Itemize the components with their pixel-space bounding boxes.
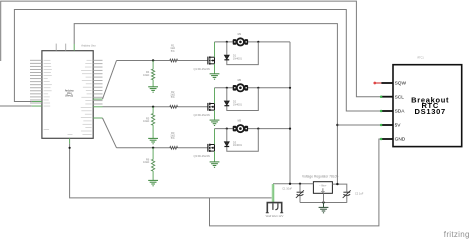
junction node gate channel 3 [152, 147, 154, 149]
wire flyback loop channel 3 [227, 129, 258, 152]
svg-text:5%: 5% [171, 49, 175, 53]
wire gate drive channel 2 [103, 106, 170, 108]
wire 5V branch to RTC 5V pin [337, 124, 381, 126]
wire from left edge to arduino left pin [0, 105, 32, 107]
diode D1 1N4001 [224, 55, 229, 59]
wire 12V motor rail vertical [289, 42, 291, 184]
arduino right pin labels [81, 60, 92, 134]
label R4 10k [143, 70, 150, 77]
label R5 10k [143, 116, 150, 123]
junction motor rail ch2 [289, 87, 291, 89]
green connection dot GND [380, 138, 383, 141]
wire regulator gnd lead [323, 193, 325, 202]
svg-text:SQW: SQW [395, 81, 407, 87]
green connection dot SCL [380, 95, 383, 98]
junction diode right channel 1 [257, 41, 259, 43]
resistor R5 10k pulldown [152, 107, 154, 114]
wire drain channel 2 [214, 88, 216, 104]
svg-text:GND: GND [395, 137, 406, 143]
wire source to ground channel 3 [214, 151, 216, 162]
junction regulator ground [322, 201, 324, 203]
RTC pin stub SQW [381, 82, 393, 84]
wire drain channel 3 [214, 129, 216, 145]
wire source to ground channel 2 [214, 110, 216, 120]
svg-text:5%: 5% [171, 136, 175, 140]
wire source to ground channel 1 [214, 64, 216, 74]
wire flyback loop channel 2 [227, 88, 258, 111]
transistor Q1 N-MOSFET [208, 56, 215, 64]
capacitor C1 10uF [299, 184, 301, 192]
svg-text:10kΩ: 10kΩ [143, 73, 149, 77]
ground source Q3 [210, 162, 220, 167]
svg-text:1N4001: 1N4001 [233, 143, 243, 147]
arduino pin stub channel 3 [93, 117, 102, 119]
svg-text:10kΩ: 10kΩ [143, 119, 149, 123]
junction node gate channel 2 [152, 106, 154, 108]
svg-text:DS1307: DS1307 [415, 107, 446, 116]
svg-text:RTC1: RTC1 [418, 56, 425, 59]
svg-text:− Vin +: − Vin + [319, 186, 327, 188]
arduino extra pin labels [44, 130, 73, 135]
svg-text:Voltage Regulator 78L05: Voltage Regulator 78L05 [302, 175, 338, 179]
junction diode right channel 3 [257, 128, 259, 130]
junction diode left channel 3 [226, 128, 228, 130]
arduino U1 body [42, 51, 93, 139]
RTC breakout box U2 [393, 65, 462, 147]
label R3 1k 5% [170, 131, 175, 140]
junction 5V to RTC [336, 124, 338, 126]
svg-text:Arduino Uno: Arduino Uno [81, 43, 96, 47]
junction diode right channel 2 [257, 87, 259, 89]
junction on GND drop wire [69, 147, 71, 149]
resistor R2 1k series [170, 105, 178, 108]
wire ground rail under regulator [300, 202, 347, 204]
junction 12V riser [289, 183, 291, 185]
svg-text:Q2 IRL2N24N: Q2 IRL2N24N [194, 113, 210, 117]
wire motor rail channel 1 [215, 41, 291, 43]
regulator inner markings [319, 186, 327, 188]
svg-text:M1: M1 [238, 33, 242, 36]
voltage regulator U3 box [313, 182, 332, 194]
arduino pin stub channel 2 [93, 106, 102, 108]
resistor R4 10k pulldown [152, 61, 154, 70]
wire wall wart 12V supply green [272, 184, 275, 203]
wire motor rail channel 2 [215, 87, 291, 89]
wire drain channel 1 [214, 42, 216, 57]
wire gate drive channel 1 [103, 61, 117, 100]
junction diode left channel 2 [226, 87, 228, 89]
label D1 1N4001 [233, 54, 243, 61]
svg-text:5%: 5% [171, 95, 175, 99]
junction diode left channel 1 [226, 41, 228, 43]
green connection dot 5V [380, 124, 383, 127]
green connection dot SDA [380, 110, 383, 113]
ground source Q2 [210, 120, 220, 125]
svg-text:1N4001: 1N4001 [233, 57, 243, 61]
junction C1 top [299, 183, 301, 185]
junction node gate channel 1 [152, 59, 154, 61]
resistor R6 10k pulldown [152, 148, 154, 160]
RTC pin stub GND [381, 138, 393, 140]
svg-text:SCL: SCL [395, 94, 405, 100]
label D2 1N4001 [233, 100, 243, 107]
svg-text:fritzing: fritzing [444, 230, 470, 239]
label D3 1N4001 [233, 140, 243, 147]
svg-text:Wall Wart 12V: Wall Wart 12V [266, 214, 284, 218]
label R1 1k 5% [170, 44, 175, 53]
label R2 1k 5% [170, 90, 175, 99]
ground source Q1 [210, 74, 220, 79]
RTC pin stub SCL [381, 96, 393, 98]
resistor R1 1k series [170, 59, 178, 62]
arduino U1 center label [65, 88, 74, 97]
wire gate drive channel 3 [103, 118, 117, 148]
wire regulator output rail [332, 184, 346, 192]
svg-text:C1 10uF: C1 10uF [282, 187, 292, 191]
label R6 10k [143, 157, 150, 164]
svg-text:Q1 IRL2N24N: Q1 IRL2N24N [194, 67, 210, 71]
wire flyback loop channel 1 [227, 42, 258, 65]
RTC pin stub SDA [381, 110, 393, 112]
svg-text:M3: M3 [238, 120, 242, 123]
RTC pin stub 5V [381, 124, 393, 126]
arduino right pin stubs [93, 60, 102, 104]
transistor Q2 N-MOSFET [208, 103, 215, 111]
arduino left pin labels [44, 60, 52, 106]
junction motor rail ch3 [289, 128, 291, 130]
ground pulldown channel 2 [148, 138, 158, 143]
capacitor C2 1uF [343, 191, 350, 193]
resistor R3 1k series [170, 146, 178, 149]
arduino pin stub channel 1 [93, 98, 102, 100]
svg-text:M2: M2 [238, 79, 242, 82]
wire net SDA: arduino left pin A4 loop to RTC SDA [32, 101, 42, 103]
arduino top pin stubs [55, 44, 57, 51]
svg-text:5V: 5V [395, 123, 402, 129]
arduino left pin stubs [30, 60, 42, 103]
ground pulldown channel 3 [148, 180, 158, 185]
wire net SCL from left edge to RTC SCL [1, 1, 382, 97]
RTC main label [411, 95, 449, 116]
wire net 5V: arduino top pin to regulator output [73, 44, 75, 51]
transistor Q3 N-MOSFET [208, 144, 215, 152]
motor M1 [233, 38, 248, 45]
svg-text:C2 1uF: C2 1uF [355, 192, 364, 196]
wire motor rail channel 3 [215, 128, 291, 130]
wall wart J1 symbol [266, 203, 283, 213]
svg-text:10kΩ: 10kΩ [143, 160, 149, 164]
svg-text:SDA: SDA [395, 109, 406, 115]
wire stub SQW unconnected red [375, 82, 382, 84]
wire regulator input rail [273, 183, 313, 185]
motor M2 [233, 84, 248, 91]
ground earth regulator [323, 203, 325, 208]
diode D3 1N4001 [224, 142, 229, 146]
wire net GND: arduino bottom pin, bottom rail, RTC GND [70, 144, 273, 198]
svg-text:(Rev3): (Rev3) [65, 93, 73, 97]
motor M3 [233, 125, 248, 132]
svg-text:1N4001: 1N4001 [233, 102, 243, 106]
diode D2 1N4001 [224, 101, 229, 105]
ground pulldown channel 1 [148, 87, 158, 92]
junction 5V output [336, 183, 338, 185]
svg-text:Q3 IRL2N24N: Q3 IRL2N24N [194, 154, 210, 158]
arduino bottom pin stub GND [69, 138, 71, 144]
